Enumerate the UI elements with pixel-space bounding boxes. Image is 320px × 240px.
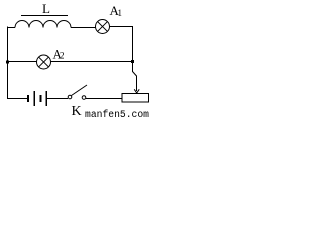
wire: A2 row right segment to right junction	[51, 61, 134, 63]
lamp A1 (circle with X)	[96, 20, 110, 34]
wire: coil to lamp A1	[71, 27, 96, 29]
wire: right vertical down to junction	[132, 26, 134, 62]
wire: top-left horizontal into inductor	[7, 27, 15, 29]
wire: A2 row left segment	[7, 61, 37, 63]
svg-text:K: K	[72, 104, 82, 119]
wire: left vertical from top-left corner down to battery row	[7, 27, 9, 99]
wire: bottom-left horizontal to battery	[7, 98, 27, 100]
svg-text:manfen5.com: manfen5.com	[85, 109, 149, 119]
inductor core line above coil	[21, 15, 68, 17]
wire: battery to switch	[47, 98, 68, 100]
inductor L coil (4 humps)	[15, 21, 71, 28]
rheostat R (slide resistor box)	[122, 94, 149, 103]
wire: wiper lead from junction (jog)	[133, 62, 137, 91]
wiper arrowhead on rheostat	[134, 89, 139, 93]
svg-text:L: L	[42, 1, 50, 16]
wire: lamp A1 to top-right corner	[110, 26, 134, 28]
node: junction dot right	[131, 60, 134, 63]
svg-text:2: 2	[60, 51, 65, 61]
switch K	[68, 85, 87, 99]
svg-text:1: 1	[118, 8, 123, 18]
wire: switch to rheostat	[86, 98, 122, 100]
lamp A2 (circle with X)	[37, 55, 51, 69]
node: junction dot left (on left vertical, A2 row)	[6, 61, 9, 64]
battery (two cells)	[27, 91, 47, 106]
